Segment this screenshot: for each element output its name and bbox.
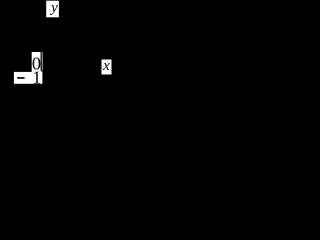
background xyxy=(0,0,114,107)
axis label box y xyxy=(46,1,59,18)
svg-text:y: y xyxy=(49,0,58,16)
svg-text:x: x xyxy=(102,58,110,74)
axis label box x xyxy=(102,60,112,75)
tick label box 0 xyxy=(32,52,43,72)
svg-text:1: 1 xyxy=(32,68,41,88)
y-axis line xyxy=(41,17,42,70)
tick label box -1 xyxy=(14,72,43,84)
minus sign of -1 xyxy=(17,77,24,79)
x-axis line xyxy=(41,70,102,71)
